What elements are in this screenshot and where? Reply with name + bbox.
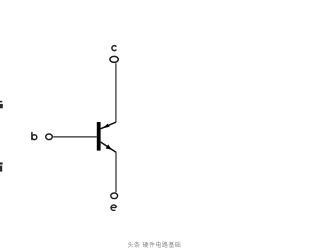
left edge cut character 2 (0, 162, 3, 171)
base bar (97, 122, 101, 151)
collector diagonal (101, 122, 116, 129)
emitter arrowhead (106, 144, 112, 149)
transistor Q1 (97, 122, 116, 152)
left edge cut character 1 (0, 101, 3, 109)
label c (collector) (112, 46, 116, 51)
svg-text:头条 硬件电路基础: 头条 硬件电路基础 (128, 241, 182, 249)
collector arrow blob (103, 124, 109, 129)
terminal c (110, 56, 118, 62)
emitter diagonal (101, 142, 116, 152)
wire emitter vertical (115, 152, 117, 192)
label e (emitter) (111, 205, 116, 211)
terminal e (111, 193, 118, 199)
label b (base) (32, 132, 37, 140)
wire collector vertical (115, 63, 117, 122)
terminal b (46, 134, 53, 140)
wire base horizontal (53, 136, 97, 138)
